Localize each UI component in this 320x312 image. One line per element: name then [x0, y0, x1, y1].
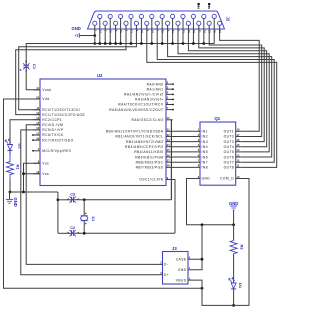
svg-text:OSC1/CLKIN: OSC1/CLKIN — [139, 178, 163, 182]
wire DB25 pin 22 to ground bus — [182, 29, 184, 44]
wire ground to pin1 — [79, 35, 95, 37]
U1 pin IN7 — [196, 161, 201, 163]
wire DB25 pin 17 to ground bus — [130, 29, 132, 44]
U1 pin IN2 — [196, 135, 201, 137]
svg-text:RC7/RX/DT/SDO: RC7/RX/DT/SDO — [42, 138, 73, 142]
wire U2 RB5 to U1 IN6 — [173, 156, 196, 158]
U2 pin 22 RB1/AN10/INT1/SCK/SCL — [166, 135, 173, 137]
svg-text:RA6/OSC2/CLKO: RA6/OSC2/CLKO — [131, 118, 163, 122]
connector J2 pin 5 — [134, 21, 138, 25]
svg-text:RA2/AN2/Vref-/CVref: RA2/AN2/Vref-/CVref — [124, 93, 163, 97]
svg-text:RC2/CCP1: RC2/CCP1 — [42, 118, 62, 122]
wire LED D1 to bottom net — [233, 293, 235, 306]
svg-text:CASE: CASE — [176, 257, 187, 261]
svg-text:D+: D+ — [164, 273, 169, 277]
wire U2 RB3 to U1 IN4 — [173, 146, 196, 148]
U1 pin IN4 — [196, 146, 201, 148]
svg-text:IN8: IN8 — [202, 166, 208, 170]
connector J2 pin 1 — [93, 21, 97, 25]
wire C2 node — [58, 232, 72, 234]
wire DB25 pin 19 to ground bus — [151, 29, 153, 44]
connector J2 pin 19 — [150, 14, 154, 18]
U2 pin 23 RB2/AN8/INT2/VMO — [166, 141, 173, 143]
wire C3 node — [58, 199, 66, 201]
wire bus to capacitor C1 — [26, 44, 95, 64]
wire DB25 pin 6 to U1 OUT8 — [147, 29, 277, 167]
wire DB25 pin 3 to ground bus — [115, 29, 117, 44]
wire resistor R1 to ground — [9, 180, 11, 193]
svg-text:GND: GND — [229, 201, 238, 206]
U1 pin IN1 — [196, 130, 201, 132]
ground bus wire — [95, 43, 214, 45]
svg-text:RB7/KBI3/PGD: RB7/KBI3/PGD — [136, 166, 164, 170]
wire U2 Vss pin8 to ground — [24, 163, 41, 192]
U2 pin 24 RB3/AN9/CCP2/VPO — [166, 146, 173, 148]
connector J2 pin 17 — [129, 14, 133, 18]
wire U2 RC5 to J3 D+ — [21, 130, 158, 275]
wire DB25 pin 21 to ground bus — [172, 29, 174, 44]
U2 pin 7 RA5/AN4/HLVDIN/SS/C2OUT — [166, 109, 173, 111]
svg-text:RB5/KBI1/PGM: RB5/KBI1/PGM — [135, 155, 163, 159]
svg-text:Vusb: Vusb — [42, 88, 51, 92]
svg-text:RA1/AN1: RA1/AN1 — [147, 87, 164, 91]
connector J2 pin 8 — [166, 21, 170, 25]
U2 pin 21 RB0/AN12/INT0/FLT0/SDI/SDA — [166, 130, 173, 132]
wire DB25 pin 11 to U1 OUT3 — [199, 29, 264, 142]
U2 pin 6 RA4/T0CKI/C1OUT/RCV — [166, 104, 173, 106]
svg-text:RB4/AN11/KBI0: RB4/AN11/KBI0 — [134, 150, 163, 154]
svg-text:RA4/T0CKI/C1OUT/RCV: RA4/T0CKI/C1OUT/RCV — [118, 103, 164, 107]
wire DB25 pin 2 to ground bus — [104, 29, 106, 44]
svg-text:C2: C2 — [70, 226, 75, 230]
svg-text:RB0/AN12/INT0/FLT0/SDI/SDA: RB0/AN12/INT0/FLT0/SDI/SDA — [106, 130, 164, 134]
wire U2 RC4 to J3 D- — [26, 125, 158, 265]
connector J2 pin 23 — [191, 14, 195, 18]
wire DB25 pin 20 to ground bus — [161, 29, 163, 44]
svg-text:IN2: IN2 — [202, 135, 208, 139]
svg-text:RA0/AN0: RA0/AN0 — [147, 82, 164, 86]
svg-text:RA3/AN3/Vref+: RA3/AN3/Vref+ — [135, 98, 163, 102]
net flag TP2 — [208, 3, 210, 5]
wire U1 GND to ground net — [187, 179, 234, 225]
wire DB25 pin 5 to U2 RC0 — [19, 29, 137, 110]
connector J2 pin 20 — [160, 14, 164, 18]
U2 pin 27 RB6/KBI2/PGC — [166, 161, 173, 163]
svg-text:Vss: Vss — [42, 172, 49, 176]
connector J2 pin 22 — [181, 14, 185, 18]
J3 pin D+ — [158, 274, 163, 276]
wire resistor R2 to LED D1 — [233, 254, 235, 280]
svg-text:IN1: IN1 — [202, 130, 208, 134]
wire U2 Vdd to VBUS net — [4, 99, 203, 288]
U1 pin IN8 — [196, 166, 201, 168]
connector J2 pin 6 — [145, 21, 149, 25]
resistor R2 — [230, 241, 237, 254]
connector J2 pin 21 — [171, 14, 175, 18]
connector J2 pin 24 — [202, 14, 206, 18]
wire DB25 pin 10 to U1 OUT4 — [188, 29, 266, 147]
U1 pin OUT3 — [236, 141, 241, 143]
connector J2 pin 11 — [197, 21, 201, 25]
U2 pin 8 Vss — [34, 162, 41, 164]
U1 pin IN5 — [196, 151, 201, 153]
U1 pin OUT4 — [236, 146, 241, 148]
svg-text:MCLR/Vpp/RE3: MCLR/Vpp/RE3 — [42, 149, 71, 153]
net flag TP1 — [198, 3, 200, 5]
wire ground node to resistor R2 — [233, 225, 235, 241]
svg-text:COM_D: COM_D — [220, 177, 234, 181]
U2 pin 4 RA2/AN2/Vref-/CVref — [166, 93, 173, 95]
svg-text:RC6/TX/CK: RC6/TX/CK — [42, 133, 64, 137]
U1 pin OUT2 — [236, 135, 241, 137]
svg-text:IN6: IN6 — [202, 155, 208, 159]
wire DB25 pin 24 to ground bus — [203, 29, 205, 44]
wire DB25 pin 12 to U1 OUT2 — [209, 29, 262, 136]
svg-text:IN3: IN3 — [202, 140, 208, 144]
svg-text:OUT3: OUT3 — [224, 140, 235, 144]
connector J2 pin 2 — [103, 21, 107, 25]
svg-text:OUT8: OUT8 — [224, 166, 235, 170]
wire DB25 pin 18 to ground bus — [140, 29, 142, 44]
svg-text:OUT6: OUT6 — [224, 155, 235, 159]
J3 pin CASE — [188, 258, 193, 260]
connector J2 pin 9 — [176, 21, 180, 25]
connector J2 pin 18 — [139, 14, 143, 18]
wire DB25 pin 25 to ground bus — [213, 29, 215, 44]
wire C2 to OSC1 node — [74, 232, 175, 234]
svg-text:R1: R1 — [16, 165, 21, 171]
U2 pin 11 RC0/T1OSO/T13CKI — [34, 109, 41, 111]
svg-text:J3: J3 — [172, 246, 177, 251]
connector J2 pin 13 — [218, 21, 222, 25]
wire DB25 pin 13 to U1 OUT1 — [220, 29, 260, 131]
wire DB25 pin 8 to U1 OUT6 — [168, 29, 272, 157]
U2 pin 2 RA0/AN0 — [166, 83, 173, 85]
wire U2 RB6 to U1 IN7 — [173, 161, 196, 163]
U1 pin OUT6 — [236, 156, 241, 158]
connector J2 pin 4 — [124, 21, 128, 25]
svg-text:OUT1: OUT1 — [224, 130, 235, 134]
svg-text:IN4: IN4 — [202, 145, 208, 149]
microcontroller U2 — [40, 79, 166, 186]
svg-text:13: 13 — [196, 6, 200, 10]
svg-text:RC0/T1OSO/T13CKI: RC0/T1OSO/T13CKI — [42, 108, 80, 112]
svg-text:J2: J2 — [226, 17, 231, 22]
svg-text:C1: C1 — [32, 64, 37, 70]
svg-text:RB3/AN9/CCP2/VPO: RB3/AN9/CCP2/VPO — [125, 145, 164, 149]
LED D2 — [8, 145, 13, 151]
svg-text:25: 25 — [207, 6, 211, 10]
wire ground to oscillator caps — [57, 192, 59, 233]
wire U2 RB4 to U1 IN5 — [173, 151, 196, 153]
U1 pin IN3 — [196, 141, 201, 143]
connector J2 pin 16 — [119, 14, 123, 18]
svg-text:OUT2: OUT2 — [224, 135, 235, 139]
svg-text:OUT7: OUT7 — [224, 160, 235, 164]
svg-text:D-: D- — [164, 263, 168, 267]
wire DB25 pin 9 to U1 OUT5 — [178, 29, 269, 152]
svg-text:Q1: Q1 — [215, 116, 221, 121]
svg-text:R2: R2 — [239, 245, 244, 251]
J3 pin D- — [158, 263, 163, 265]
svg-text:VBUS: VBUS — [176, 278, 187, 282]
svg-text:U2: U2 — [97, 73, 103, 78]
J3 pin VBUS — [188, 279, 193, 281]
connector J3 — [163, 252, 189, 285]
wire DB25 pin 14 to ground bus — [99, 29, 101, 44]
svg-text:IN7: IN7 — [202, 160, 208, 164]
svg-text:GND: GND — [178, 268, 187, 272]
svg-text:RC1/T1OSI/CCP2/UOE: RC1/T1OSI/CCP2/UOE — [42, 113, 85, 117]
connector J2 pin 12 — [207, 21, 211, 25]
svg-text:Vss: Vss — [42, 162, 49, 166]
U2 pin 18 RC7/RX/DT/SDO — [33, 139, 40, 141]
U2 pin 5 RA3/AN3/Vref+ — [166, 98, 173, 100]
connector J2 pin 25 — [212, 14, 216, 18]
wire J3 VBUS down — [193, 280, 203, 288]
U2 pin 12 RC1/T1OSI/CCP2/UOE — [34, 114, 41, 116]
U1 pin OUT7 — [236, 161, 241, 163]
svg-text:GND: GND — [72, 26, 81, 31]
wire pin1 to bus — [94, 29, 96, 44]
connector J2 DB25 body — [88, 11, 225, 29]
svg-text:D2: D2 — [18, 144, 23, 150]
LED D1 — [231, 283, 236, 289]
U2 pin 19 Vss — [34, 173, 41, 175]
svg-text:RC5/D+/VP: RC5/D+/VP — [42, 128, 64, 132]
wire U2 Vss pin19 to ground — [24, 173, 41, 175]
U2 pin 9 OSC1/CLKIN — [166, 179, 173, 181]
U1 pin OUT5 — [236, 151, 241, 153]
U2 pin 17 RC6/TX/CK — [33, 134, 40, 136]
crystal X1 — [83, 200, 85, 216]
svg-text:OUT5: OUT5 — [224, 150, 235, 154]
wire U2 RB2 to U1 IN3 — [173, 141, 196, 143]
wire J3 CASE GND to ground net — [193, 259, 203, 270]
svg-text:RB1/AN10/INT1/SCK/SCL: RB1/AN10/INT1/SCK/SCL — [115, 135, 163, 139]
wire U2 RB0 to U1 IN1 — [173, 130, 196, 132]
U2 pin 25 RB4/AN11/KBI0 — [166, 151, 173, 153]
U2 pin 15 RC4/D-/VM — [34, 124, 41, 126]
resistor R1 — [7, 154, 14, 180]
svg-text:RB2/AN8/INT2/VMO: RB2/AN8/INT2/VMO — [126, 140, 163, 144]
wire bottom VBUS net — [202, 179, 249, 306]
U2 pin 28 RB7/KBI3/PGD — [166, 166, 173, 168]
U2 pin 14 Vusb — [34, 89, 41, 91]
U2 pin 10 RA6/OSC2/CLKO — [166, 119, 173, 121]
connector J2 pin 10 — [186, 21, 190, 25]
U1 pin OUT8 — [236, 166, 241, 168]
svg-text:Vdd: Vdd — [42, 97, 49, 101]
U1 pin GND — [196, 178, 201, 180]
wire U2 RA6 OSC2 to crystal — [171, 120, 172, 200]
U2 pin 20 Vdd — [34, 98, 41, 100]
U2 pin 16 RC5/D+/VP — [34, 129, 41, 131]
U2 pin 3 RA1/AN1 — [166, 88, 173, 90]
wire U2 RB1 to U1 IN2 — [173, 135, 196, 137]
wire DB25 pin 15 to ground bus — [109, 29, 111, 44]
U1 pin OUT1 — [236, 130, 241, 132]
svg-text:RB6/KBI2/PGC: RB6/KBI2/PGC — [136, 160, 164, 164]
capacitor C1 — [23, 64, 29, 66]
wire C3 to OSC2 node — [74, 199, 172, 201]
U2 pin 1 MCLR/Vpp/RE3 — [33, 150, 40, 152]
connector J2 pin 14 — [98, 14, 102, 18]
connector J2 pin 3 — [114, 21, 118, 25]
ground wire left — [10, 191, 58, 193]
svg-text:RC4/D-/VM: RC4/D-/VM — [42, 123, 63, 127]
svg-text:X1: X1 — [91, 216, 96, 222]
wire DB25 pin 23 to ground bus — [192, 29, 194, 44]
svg-text:GND: GND — [202, 177, 211, 181]
wire DB25 pin 4 to U2 RC1 — [16, 29, 126, 115]
U1 pin COM_D — [236, 178, 241, 180]
U2 pin 13 RC2/CCP1 — [34, 119, 41, 121]
svg-text:GND: GND — [13, 198, 18, 207]
wire DB25 pin 16 to ground bus — [120, 29, 122, 44]
darlington array U1 — [200, 122, 236, 185]
U1 pin IN6 — [196, 156, 201, 158]
connector J2 pin 7 — [155, 21, 159, 25]
ground symbol bottom-left — [9, 192, 11, 199]
connector J2 pin 15 — [108, 14, 112, 18]
wire U2 OSC1 to crystal — [173, 180, 176, 234]
wire U2 RB7 to U1 IN8 — [173, 166, 196, 168]
wire capacitor C1 to U2 Vusb — [26, 67, 40, 90]
svg-text:D1: D1 — [238, 283, 243, 289]
wire DB25 pin 7 to U1 OUT7 — [157, 29, 274, 162]
svg-text:OUT4: OUT4 — [224, 145, 235, 149]
J3 pin GND — [188, 269, 193, 271]
wire U2 RC2 to LED D2 — [10, 120, 40, 141]
svg-text:C3: C3 — [70, 192, 75, 196]
svg-text:IN5: IN5 — [202, 150, 208, 154]
svg-text:RA5/AN4/HLVDIN/SS/C2OUT: RA5/AN4/HLVDIN/SS/C2OUT — [109, 108, 163, 112]
U2 pin 26 RB5/KBI1/PGM — [166, 156, 173, 158]
